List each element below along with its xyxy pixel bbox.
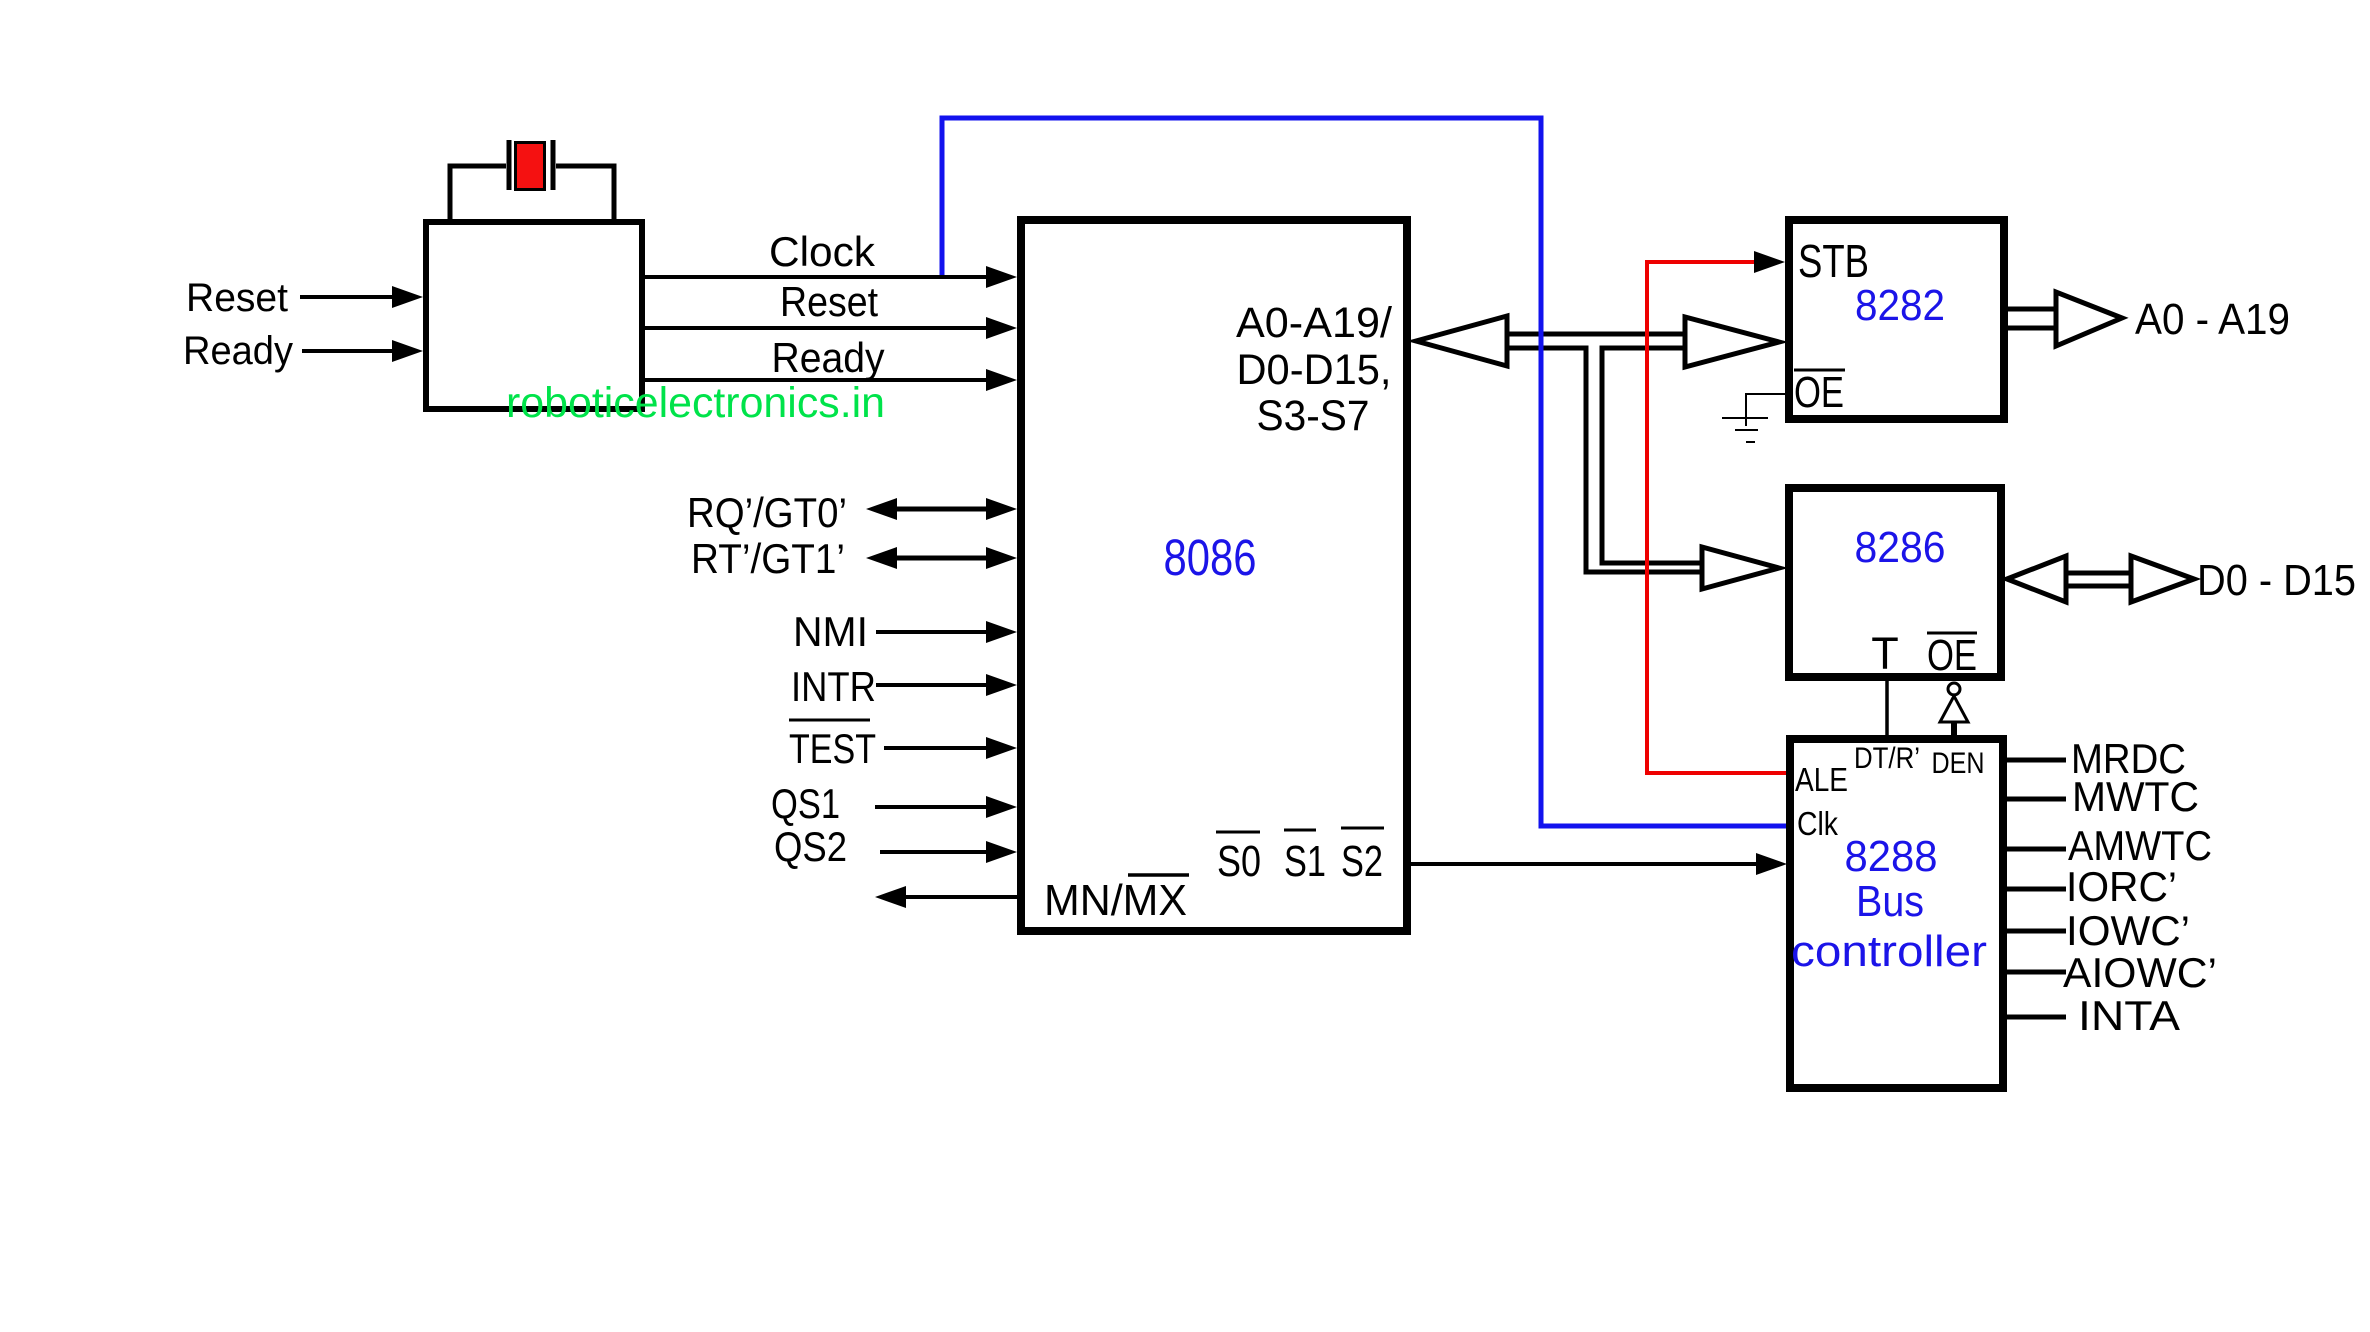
wire MRDC (2007, 758, 2066, 763)
svg-text:Clk: Clk (1797, 805, 1838, 842)
svg-text:S0: S0 (1217, 837, 1261, 886)
arrowhead on red wire into STB (1754, 251, 1785, 273)
crystal body (red) (516, 143, 545, 190)
crystal left plate (507, 140, 512, 190)
wire Clock to 8086 (645, 275, 988, 279)
DEN stub wire (1951, 722, 1957, 737)
bus hollow arrowhead right into 8282 (1685, 317, 1779, 367)
DEN inverter bubble (1948, 683, 1960, 695)
wire AIOWC' (2007, 970, 2066, 975)
crystal right plate (551, 140, 556, 190)
svg-text:QS1: QS1 (771, 780, 840, 827)
svg-text:OE: OE (1794, 368, 1844, 417)
svg-text:Reset: Reset (780, 278, 878, 325)
svg-text:RT’/GT1’: RT’/GT1’ (691, 535, 845, 582)
wire Ready input (302, 349, 394, 353)
D0-D15 double hollow arrow (2060, 573, 2140, 586)
svg-text:QS2: QS2 (774, 823, 847, 870)
A0-A19 output hollow arrow (2005, 309, 2060, 328)
wire QS2 (880, 850, 988, 854)
8286 block (1789, 488, 2001, 677)
crystal left wire (450, 166, 506, 221)
svg-text:RQ’/GT0’: RQ’/GT0’ (687, 489, 847, 536)
clock generator block (426, 222, 642, 409)
svg-text:8282: 8282 (1855, 281, 1945, 330)
wire IORC' (2007, 887, 2066, 892)
svg-text:D0 - D15: D0 - D15 (2197, 556, 2356, 605)
svg-text:AIOWC’: AIOWC’ (2063, 949, 2217, 996)
svg-text:TEST: TEST (789, 725, 876, 772)
svg-text:T: T (1871, 628, 1899, 679)
svg-text:S3-S7: S3-S7 (1257, 392, 1370, 440)
wire IOWC' (2007, 929, 2066, 934)
wire 8286 T to 8288 (1885, 681, 1889, 736)
svg-text:IORC’: IORC’ (2066, 863, 2177, 910)
bus hollow arrowhead into 8286 (1702, 547, 1779, 589)
svg-text:Reset: Reset (186, 276, 288, 320)
svg-text:8288: 8288 (1845, 832, 1938, 881)
bus shaft bottom-left wall to 8286 branch outer (1500, 348, 1706, 572)
wire S0 S1 S2 to 8288 (1411, 862, 1758, 866)
svg-text:OE: OE (1927, 631, 1977, 680)
svg-text:D0-D15,: D0-D15, (1237, 346, 1392, 394)
red ALE-STB wire (1647, 262, 1786, 773)
wire NMI (876, 630, 988, 634)
wire INTA (2007, 1015, 2066, 1020)
svg-text:Bus: Bus (1856, 877, 1924, 926)
svg-text:MN/MX: MN/MX (1044, 876, 1187, 925)
ground symbol at 8282 OE (1722, 394, 1785, 442)
svg-text:DEN: DEN (1932, 747, 1985, 780)
wire RQ'/GT0' bidirectional (895, 507, 990, 512)
svg-text:A0 - A19: A0 - A19 (2135, 295, 2290, 344)
svg-text:STB: STB (1798, 235, 1869, 287)
svg-text:Ready: Ready (772, 334, 885, 381)
svg-text:Clock: Clock (769, 228, 876, 275)
svg-text:8086: 8086 (1164, 529, 1257, 586)
wire MN/MX output (904, 895, 1017, 899)
8288 block (1790, 739, 2003, 1088)
svg-text:S2: S2 (1341, 837, 1383, 886)
wire Reset input (300, 295, 394, 299)
8282 block (1789, 220, 2004, 419)
wire Ready to 8086 (645, 378, 988, 382)
wire RT'/GT1' bidirectional (895, 556, 990, 561)
svg-text:Ready: Ready (183, 329, 293, 373)
svg-text:A0-A19/: A0-A19/ (1236, 299, 1392, 347)
wire MWTC (2007, 797, 2066, 802)
wire INTR (876, 683, 988, 687)
svg-text:IOWC’: IOWC’ (2066, 907, 2190, 954)
wire TEST (884, 746, 988, 750)
svg-text:MWTC: MWTC (2072, 773, 2199, 820)
blue clock wire (942, 118, 1786, 826)
svg-text:roboticelectronics.in: roboticelectronics.in (506, 379, 885, 427)
svg-text:AMWTC: AMWTC (2068, 822, 2212, 869)
8086 block (1021, 220, 1407, 931)
wire AMWTC (2007, 847, 2066, 852)
svg-text:S1: S1 (1284, 837, 1326, 886)
bus A0-A19/D0-D15 shaft top line (1500, 332, 1690, 337)
bus hollow arrowhead left into 8086 (1416, 316, 1507, 366)
svg-text:DT/R’: DT/R’ (1854, 742, 1920, 775)
svg-text:ALE: ALE (1795, 761, 1848, 798)
crystal right wire (556, 166, 614, 221)
svg-text:INTR: INTR (791, 663, 876, 710)
bus shaft bottom-right wall to 8286 branch inner (1602, 348, 1706, 563)
wire Reset to 8086 (645, 326, 988, 330)
svg-text:NMI: NMI (793, 608, 868, 655)
svg-text:8286: 8286 (1855, 523, 1946, 572)
DEN inverter triangle (1940, 696, 1968, 722)
wire QS1 (875, 805, 988, 809)
svg-text:controller: controller (1791, 927, 1987, 976)
svg-text:INTA: INTA (2078, 992, 2180, 1039)
